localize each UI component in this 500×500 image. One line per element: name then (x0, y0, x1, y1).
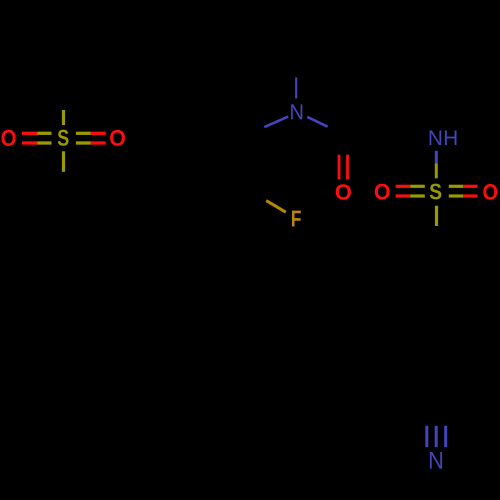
atom O1 label (1, 130, 15, 146)
S2=O4 double bond, O half (red) (463, 186, 477, 196)
atom N3 label (291, 104, 302, 119)
atom S1 label (58, 130, 69, 146)
C-F bond (F half) (266, 201, 286, 213)
N3 to fluoroethyl CH2 bond (N half) (264, 117, 288, 128)
S2=O4 double bond, S half (olive) (449, 186, 463, 196)
S1=O1 double bond, S half (olive) (38, 133, 52, 143)
nitrile C#N triple bond (N half) (427, 426, 446, 447)
C=O double bond (O half) (339, 155, 348, 180)
sulfonamide N of NH label (430, 131, 442, 146)
nitrile N label (430, 452, 442, 469)
atom O3 label (375, 184, 390, 200)
S1=O1 double bond, O half (red) (22, 133, 38, 143)
S1=O2 double bond, O half (red) (91, 133, 106, 143)
carbonyl O label (336, 184, 351, 200)
atom O2 label (110, 130, 125, 146)
atom S2 label (430, 184, 442, 200)
methyl C-S bond above S1 (S half) (62, 110, 65, 125)
N-S single bond (N half) (435, 151, 438, 164)
methyl C-S bond below S1 (S half) (62, 151, 65, 172)
atom O4 label (483, 184, 497, 200)
atom F label (292, 211, 301, 227)
N3 to carbonyl C bond (N half) (307, 117, 327, 127)
S2=O3 double bond, O half (red) (396, 186, 411, 196)
N-S single bond (S half) (435, 164, 438, 179)
S2 to aryl C bond (S half) (435, 206, 438, 226)
sulfonamide H of NH label (445, 131, 457, 146)
N-methyl bond above N3 (N half) (295, 78, 297, 99)
S1=O2 double bond, S half (olive) (76, 133, 91, 143)
S2=O3 double bond, S half (olive) (410, 186, 425, 196)
